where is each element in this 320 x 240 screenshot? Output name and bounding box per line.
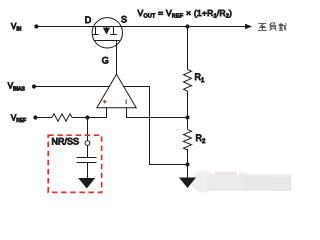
wire: R2 to ground xyxy=(187,149,189,178)
wire: capacitor to ground xyxy=(87,163,89,179)
op-amp - marker xyxy=(125,99,127,104)
op-amp U1 error amplifier xyxy=(97,74,136,108)
svg-text:VOUT = VREF × (1+R1/R2): VOUT = VREF × (1+R1/R2) xyxy=(138,8,233,20)
wire: VIN to VOUT top rail xyxy=(36,26,245,28)
node bottom junction xyxy=(185,162,189,166)
resistor (VREF series) xyxy=(52,114,72,121)
svg-text:D: D xyxy=(85,15,92,25)
svg-text:S: S xyxy=(121,14,127,24)
svg-text:VBIAS: VBIAS xyxy=(8,82,26,93)
svg-text:VIN: VIN xyxy=(11,22,22,33)
capacitor C (NR/SS) xyxy=(77,158,97,163)
svg-text:G: G xyxy=(102,55,109,65)
ground (output divider) xyxy=(179,178,196,189)
wire: NR node down xyxy=(87,118,89,141)
node FB junction xyxy=(185,115,189,119)
wire: VREF to resistor xyxy=(35,117,52,119)
output arrow xyxy=(245,24,252,30)
wire: R1 to R2 xyxy=(187,91,189,129)
node VREF terminal xyxy=(33,115,37,119)
node VBIAS terminal xyxy=(32,84,36,88)
wire: VOUT down to R1 xyxy=(187,27,189,70)
svg-text:NR/SS: NR/SS xyxy=(52,136,80,146)
resistor R2 xyxy=(184,129,192,150)
node NR junction xyxy=(85,115,89,119)
ground (NR/SS) xyxy=(78,178,95,189)
wire: gate to op-amp xyxy=(116,41,118,75)
svg-text:R2: R2 xyxy=(196,133,207,145)
resistor R1 xyxy=(184,69,192,91)
wire: pin to capacitor xyxy=(87,145,89,157)
svg-text:VREF: VREF xyxy=(11,114,26,125)
watermark xyxy=(191,171,292,193)
wire: VBIAS to op-amp xyxy=(34,86,110,88)
pin NR/SS (open circle) xyxy=(85,141,90,146)
wire: op-amp - input to feedback xyxy=(127,108,186,118)
transistor Q1 (PMOS pass element) xyxy=(92,18,122,48)
op-amp + marker xyxy=(103,100,107,104)
NR/SS dashed highlight box xyxy=(48,135,101,192)
svg-text:R1: R1 xyxy=(195,72,206,84)
wire: resistor to op-amp + input xyxy=(72,108,107,118)
node VOUT junction xyxy=(185,24,189,28)
wire: op-amp to ground rail xyxy=(124,87,185,165)
node VIN terminal xyxy=(34,24,38,28)
label 至负载 (to load), hand-drawn glyphs xyxy=(258,23,287,31)
